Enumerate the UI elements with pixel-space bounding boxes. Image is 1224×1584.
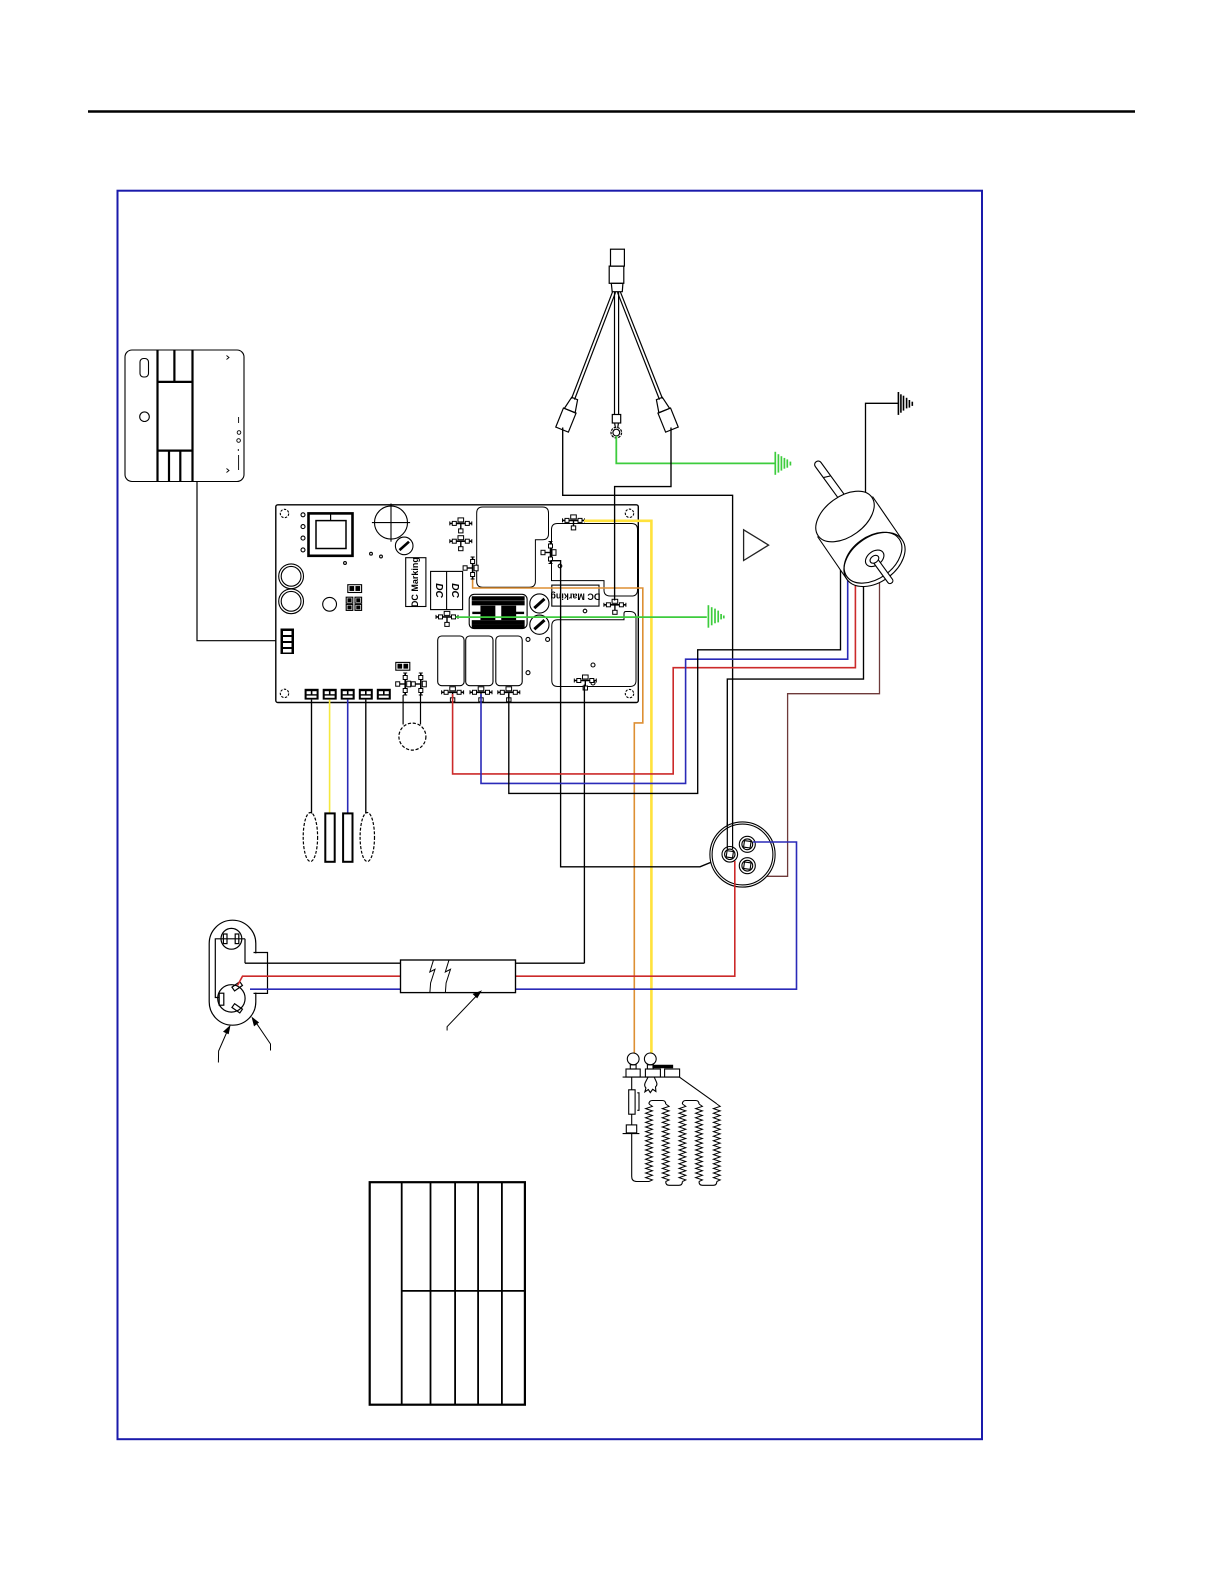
pad block 2x2 [346, 597, 361, 610]
wire black (plug to fuse) [245, 962, 584, 964]
wire brown (motor to capacitor) [754, 573, 880, 876]
wire black (relay to fuse line) [583, 685, 585, 964]
ring terminal ferrule [612, 415, 620, 424]
plug pin lower-right-bottom (angled) [232, 1004, 243, 1013]
capacitor can [710, 822, 775, 887]
fuse F1 body [401, 960, 516, 993]
svg-text:DC Marking: DC Marking [410, 557, 420, 607]
plug link wire [244, 939, 246, 963]
svg-text:DC: DC [449, 583, 460, 598]
control panel body [125, 350, 244, 482]
heater terminal block 2 [645, 1069, 660, 1077]
PCB mounting hole top-right [625, 509, 633, 517]
wire yellow (sensor 2) [329, 700, 331, 814]
cord plug body [609, 266, 624, 283]
wire cord right lead to board relay [615, 428, 671, 601]
motor front shaft [871, 556, 894, 584]
jumper J1 pads [348, 585, 362, 593]
wire green (board to earth, right) [456, 616, 707, 618]
heater coil 1 [646, 1104, 653, 1182]
terminal lug left [556, 396, 581, 432]
capacitor terminal F [739, 858, 755, 874]
diagram border frame [118, 191, 983, 1440]
thermal fuse TF [626, 1125, 636, 1133]
thermal cutoff TCO [629, 1090, 635, 1114]
arrow to plug left [218, 1026, 229, 1062]
capacitor terminal C (common) [722, 847, 738, 863]
ring terminal [614, 424, 617, 428]
coil bottom link 2-3 [666, 1182, 683, 1186]
plug socket lower [218, 985, 245, 1012]
wire blue (board to motor) [481, 568, 848, 783]
control panel LED circle [140, 412, 150, 422]
heater terminal ring yellow [644, 1053, 656, 1065]
lead wire left [572, 292, 613, 399]
plug socket upper [221, 928, 242, 949]
relay RY2 outline [552, 524, 638, 597]
wire black (sensor 1) [311, 700, 313, 814]
PCB mounting hole bottom-left [280, 689, 288, 697]
heater terminal block 1 [626, 1069, 640, 1077]
heater terminal block 3 [665, 1069, 680, 1077]
coil ring L2 [279, 589, 304, 614]
wire black (sensor 4) [365, 700, 367, 814]
wire cord left lead to capacitor common [563, 428, 733, 850]
wire yellow (board to heater thermostat) [584, 521, 651, 1053]
fuse break marks [430, 960, 451, 992]
DC marking label (vertical) [406, 558, 426, 607]
plug body [209, 920, 256, 1025]
heater link bar [653, 1065, 673, 1067]
sensor probe 3 [343, 813, 352, 861]
motor rear shaft [813, 460, 850, 508]
crimp splice [645, 1077, 657, 1092]
wire black (board to motor) [509, 563, 841, 793]
coil top link 1-2 [649, 1101, 666, 1105]
relay RY1 outline [477, 507, 549, 587]
control panel center band [158, 350, 193, 482]
relay K2 [466, 636, 493, 686]
small capacitor C2 [323, 597, 337, 611]
bridge module BR1 [469, 594, 527, 628]
header rule [88, 110, 1135, 113]
wire terminal block 3 to coil 5 [680, 1077, 717, 1104]
control panel button [140, 359, 149, 378]
wire to thermal cutoff [631, 1077, 633, 1090]
IC U1 [309, 513, 353, 555]
pad row left [301, 513, 305, 517]
wire orange (board to heater thermostat) [473, 580, 643, 1054]
small pads center [526, 637, 530, 641]
wire blue (plug pigtail) [250, 988, 401, 990]
motor hub [862, 547, 887, 570]
motor face ring [835, 522, 912, 594]
sensor probe 2 [325, 813, 334, 861]
heater coil 2 [662, 1104, 669, 1182]
screw pot VR3 [530, 615, 549, 634]
sensor bulb 1 [303, 813, 317, 862]
cord strain relief [611, 283, 623, 291]
jumper J2 pads [396, 662, 410, 670]
capacitor lead pair re-draw [726, 823, 728, 850]
relay K1 [438, 636, 464, 686]
plug pin upper-right [235, 934, 239, 944]
wire control panel to PCB connector [197, 482, 280, 641]
PCB mounting hole top-left [280, 509, 288, 517]
arrow to fuse [447, 991, 481, 1030]
wire black (motor earth) [866, 403, 899, 503]
left edge connector CN1 [281, 629, 295, 655]
svg-text:DC: DC [433, 583, 444, 598]
terminal lug right [653, 396, 678, 432]
svg-text:DC Marking: DC Marking [550, 592, 600, 602]
heater coil 5 [713, 1104, 720, 1182]
component symbols on PCB [450, 518, 472, 533]
plug pin upper-left [223, 934, 227, 944]
coil bottom link 4-5 [699, 1182, 717, 1186]
control panel tiny marks [227, 356, 241, 473]
wire red (capacitor to fuse line) [401, 861, 735, 976]
wire red (plug pigtail) [238, 976, 401, 985]
wire ring terminal to earth (green) [616, 436, 774, 463]
DC-DC module box [431, 571, 463, 609]
heater coil 4 [696, 1104, 703, 1182]
plug pin lower-left [219, 993, 224, 1005]
DC marking label (inverted) [552, 585, 599, 606]
buzzer BZ1 [402, 695, 404, 725]
capacitor terminal H [739, 836, 755, 852]
sensor bulb 4 [360, 813, 374, 862]
lead wire right [620, 292, 662, 399]
arrow to plug right [252, 1018, 270, 1051]
wire blue (sensor 3) [347, 700, 349, 814]
triangle marker [744, 530, 769, 561]
wire blue (capacitor to fuse line) [401, 842, 797, 989]
wire cutoff to fuse link [631, 1114, 633, 1125]
trimmer VR1 [395, 537, 413, 555]
relay RY3 outline [552, 612, 636, 687]
heater terminal ring orange [627, 1053, 639, 1065]
lead wire middle [614, 292, 616, 415]
earth ground symbol (green, mid) [708, 605, 723, 628]
PCB mounting hole bottom-right [625, 689, 633, 697]
wire black (motor to capacitor common) [727, 576, 863, 849]
earth ground symbol (black, top right) [898, 392, 912, 415]
wire fuse to coil 1 [632, 1133, 649, 1182]
relay K3 [496, 636, 522, 686]
electrolytic capacitor CE1 (cross top) [375, 506, 408, 539]
coil ring L1 [279, 564, 304, 589]
bottom connector row CN2..CN6 [305, 689, 391, 700]
plug pin lower-right-top (angled) [232, 982, 243, 991]
wire black (board component to capacitor common) [551, 561, 728, 867]
heater terminal rail [623, 1076, 680, 1078]
wire red (board to motor) [453, 573, 856, 774]
PCB outline [276, 505, 639, 703]
screw pot VR2 [530, 594, 549, 613]
motor body [818, 497, 903, 580]
coil top link 3-4 [682, 1101, 699, 1105]
heater coil 3 [679, 1104, 686, 1182]
cord plug cap [611, 249, 625, 266]
earth ground symbol (green, top) [775, 452, 790, 475]
